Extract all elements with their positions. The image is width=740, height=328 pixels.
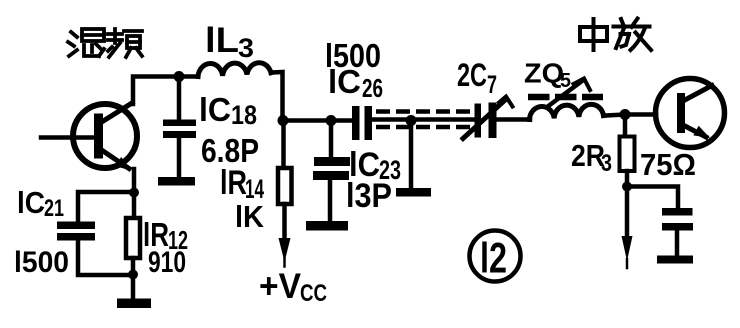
node A (collector / C18 junction) [174,71,185,82]
coax shield (dashed, upper) [376,109,471,114]
wire (node C to ground) [131,275,136,299]
wire (Q1 collector up and to L3) [133,77,198,105]
filter ZQ5 (dashed bar) [528,94,603,101]
ground (below C23) [306,221,348,231]
coax shield (dashed, lower) [376,125,471,130]
wire (Q1 base lead) [41,135,95,140]
wire (shield to ground) [409,121,414,189]
svg-text:2R: 2R [571,138,605,173]
ground (below bypass capacitor) [657,256,693,264]
svg-text:26: 26 [362,73,383,103]
node F (shield ground junction) [406,115,417,126]
transistor Q1 [73,103,137,171]
resistor R3 [620,115,635,187]
transistor Q2 [656,79,725,148]
node C (R12 bottom junction) [128,270,138,280]
capacitor (Q2 base bypass) [662,208,693,256]
capacitor C21 [57,222,95,241]
wire (2C7 to ZQ5) [497,117,531,122]
wire (coax center conductor) [372,117,475,122]
svg-text:+V: +V [259,267,302,306]
svg-text:3: 3 [238,33,254,63]
svg-text:75Ω: 75Ω [640,147,696,182]
svg-text:5: 5 [560,70,571,92]
wire (node H to bypass capacitor) [627,187,678,209]
svg-text:lC: lC [328,63,361,100]
trimmer capacitor 2C7 [463,97,513,139]
wire (C21 bottom to node C) [78,241,133,276]
ground (below R12) [117,299,151,309]
capacitor C26 (series) [352,106,372,140]
svg-text:3: 3 [601,150,612,177]
ground (below C18) [158,177,195,186]
capacitor C18 [163,77,196,178]
arrow to +Vcc (down arrow below R14) [279,238,291,267]
svg-text:l2: l2 [480,235,507,283]
svg-text:l500: l500 [14,246,69,279]
arrow (AGC line down from node H) [622,187,633,269]
svg-text:910: 910 [148,246,186,279]
svg-text:2C: 2C [457,57,487,93]
node E (C23 junction) [326,115,337,126]
node G (Q2 base / R3 junction) [620,109,631,120]
filter ZQ5 (coil) [530,104,604,119]
svg-text:CC: CC [300,280,327,307]
svg-text:lC: lC [199,91,231,128]
svg-text:lR: lR [220,164,247,202]
svg-text:ZQ: ZQ [524,58,564,89]
wire (main line from L3 to C26) [283,118,353,123]
figure number circle 12 [470,231,521,282]
svg-text:lL: lL [205,21,239,60]
wire (ZQ5 to Q2 base) [604,115,657,116]
label 混频 (mixer) [68,29,142,57]
wire (node B to C21) [78,192,134,222]
node B (emitter / C21 / R12 junction) [129,188,139,198]
node H (R3 bottom junction) [622,182,632,192]
svg-text:lK: lK [235,199,265,234]
ground (coax shield) [396,188,431,197]
filter ZQ5 (adjust arrow) [547,79,590,108]
label 中放 (IF amplifier) [580,19,651,51]
svg-text:lC: lC [17,185,45,220]
resistor R14 [278,121,292,241]
wire (Q1 emitter down) [132,169,137,193]
inductor L3 [198,63,271,77]
svg-text:18: 18 [231,100,257,130]
svg-text:7: 7 [487,71,497,99]
svg-text:21: 21 [44,195,64,222]
capacitor C23 [313,121,350,222]
svg-text:l3P: l3P [346,177,392,215]
wire (L3 right end down to main line) [271,72,283,121]
node D (L3 / R14 / main line junction) [278,115,289,126]
resistor R12 [126,193,140,275]
